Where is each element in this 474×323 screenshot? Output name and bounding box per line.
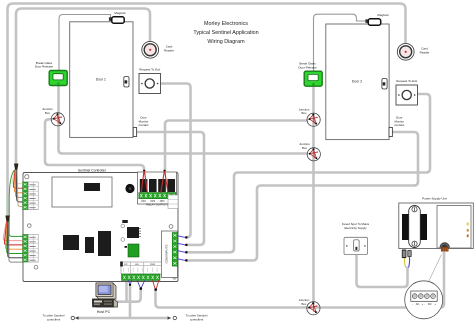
door monitor contact 2 [389,128,392,137]
controller mounting holes [25,175,29,179]
wire card reader 1 to controller reader-1 terminals [16,9,150,168]
svg-text:Door 2: Door 2 [352,80,362,84]
PSU pcb [437,206,471,249]
COM input pigtails and dots [178,236,185,238]
request to exit 1 [139,74,161,94]
svg-text:Box: Box [302,111,308,115]
wire RS485 drop to network bus [129,285,132,318]
transformer [402,214,427,240]
wire host PC to RS232 terminal [115,289,141,302]
svg-text:Typical Sentinel Application: Typical Sentinel Application [193,30,258,36]
maglock 1 [109,17,124,23]
break glass door release 1 [49,71,67,86]
wire break glass 1 to maglock 1 [59,15,111,71]
svg-text:Wiring Diagram: Wiring Diagram [207,39,245,45]
relay feed wire dots and red tails [143,170,145,172]
wire door monitor contact 1 to COM input 2 [137,132,204,245]
COM inputs section [162,231,178,278]
door 2 [326,24,389,140]
card reader 1 [142,41,159,58]
aux terminal boxes above COM inputs [168,195,178,209]
wire card reader 2 to controller reader-2 terminals [8,4,406,219]
svg-text:controllers: controllers [190,317,204,321]
wire break glass 2 down through junction boxes 2a 2b to junction box 3 [312,76,315,305]
wire RS232 second drop [125,281,128,302]
wire break glass 1 down through junction box 1 to junction box 2b [59,76,309,154]
small IC with legs [127,227,139,238]
reader terminal group 2 [23,235,29,263]
wire junction box 2a west branch to relay outputs OP3/OP4 [165,121,308,171]
door 2 handle [382,79,387,90]
svg-text:Box: Box [302,302,308,306]
controller display sub-board [52,177,112,207]
svg-text:Power Supply Unit: Power Supply Unit [422,197,447,201]
middle ICs [63,235,79,250]
door monitor contact 1 [133,128,136,137]
svg-text:Contact: Contact [139,123,149,127]
wire fused spur to PSU mains inlet [357,254,408,287]
reader cable 1 bundle tip [14,164,18,171]
svg-text:RELAY OUTPUTS: RELAY OUTPUTS [146,203,168,207]
wire break glass 2 to maglock 2 [314,14,367,71]
PSU mains inlet connector [402,250,412,259]
svg-text:controllers: controllers [47,317,61,321]
PSU DC output connector [440,242,450,247]
svg-text:COM INPUTS: COM INPUTS [165,245,169,264]
svg-text:AC: AC [416,302,420,306]
network bus east arrow [173,316,176,319]
reader terminal group 1 [23,182,29,210]
svg-text:Maglock: Maglock [114,11,126,15]
svg-text:OP3: OP3 [160,200,165,203]
svg-text:DC: DC [428,302,432,306]
detail circle of PSU DC terminals [405,281,443,319]
svg-text:Request To Exit: Request To Exit [139,68,160,72]
power supply unit box [399,203,474,249]
svg-text:Morley Electronics: Morley Electronics [204,21,248,27]
request to exit 2 [396,85,418,105]
PWR red pigtails to PSU cable [153,281,159,290]
svg-text:OP2: OP2 [150,200,155,203]
sounder [125,184,134,193]
svg-text:Door Release: Door Release [35,65,54,69]
svg-text:Reader: Reader [164,48,174,52]
svg-text:-: - [412,303,413,306]
svg-text:Reader: Reader [420,50,430,54]
junction box 1 [51,113,64,126]
svg-text:Host PC: Host PC [97,310,111,314]
host PC [93,283,118,307]
network bus west arrow [71,316,74,319]
wire junction box 1 west branch to relay outputs OP1/OP2 [45,119,144,170]
svg-text:Request To Exit: Request To Exit [396,79,417,83]
leader line to detail view [427,255,442,286]
LCD module [84,183,100,191]
green power relay [128,244,139,257]
svg-text:Door 1: Door 1 [96,78,106,82]
mains inlet wires [404,258,405,268]
reader cable 2 bundle tip [5,216,9,223]
bottom terminal green row [122,274,161,281]
wire controller PWR terminals to power supply via junction box 3 [156,252,445,308]
junction box 2a [307,113,320,126]
svg-text:Door Release: Door Release [298,65,317,69]
fused spur to mains [344,237,368,254]
wire request-to-exit 2 to COM input 3 [187,94,430,252]
svg-text:PWR: PWR [150,264,156,266]
break glass door release 2 [304,71,322,86]
svg-text:OP1: OP1 [141,200,146,203]
wire RS485 network bus [78,317,167,320]
svg-text:Sentinel Controller: Sentinel Controller [78,168,107,172]
svg-text:Maglock: Maglock [377,13,389,17]
relay outputs section [138,172,177,204]
relays K1-K4 [140,179,148,192]
maglock 2 [365,19,380,25]
RS485 terminal dot [129,284,131,286]
svg-text:Electricity Supply: Electricity Supply [344,226,367,230]
sentinel controller board [23,173,178,282]
card reader 2 [397,43,414,60]
junction box 2b [307,148,320,161]
RS232 blue pigtails to host PC cable [137,281,144,289]
door 1 [70,22,133,138]
svg-text:Contact: Contact [394,123,404,127]
door 1 handle [124,77,129,88]
relay output terminal row [139,193,176,199]
bottom comms terminal labels [121,262,161,274]
svg-text:Box: Box [302,146,308,150]
junction box 3 [307,302,320,315]
wire request-to-exit 1 to COM input 1 [161,84,191,238]
svg-text:Box: Box [45,111,51,115]
svg-text:-: - [425,303,426,306]
wire door monitor contact 2 to COM input 4 [187,132,418,260]
